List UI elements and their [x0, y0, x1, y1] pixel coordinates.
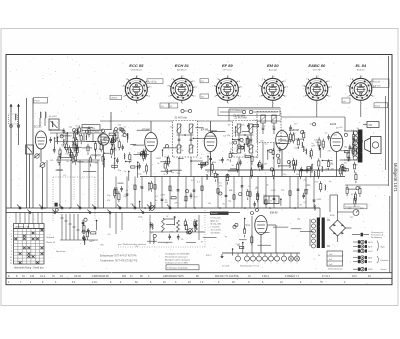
- svg-text:ECH 81: ECH 81: [175, 63, 190, 68]
- svg-text:1398729446 68: 1398729446 68: [92, 275, 109, 278]
- svg-text:Endrohr: Endrohr: [357, 68, 365, 71]
- svg-text:7: 7: [291, 263, 292, 265]
- svg-text:7: 7: [265, 263, 266, 265]
- svg-text:Abschnitt Abzug : Gerät aus: Abschnitt Abzug : Gerät aus: [13, 267, 44, 270]
- svg-text:47 21 4: 47 21 4: [322, 275, 331, 278]
- svg-text:6 82 4: 6 82 4: [262, 275, 269, 278]
- svg-text:AnTr: AnTr: [368, 246, 373, 249]
- svg-text:2,2M: 2,2M: [304, 190, 309, 192]
- svg-text:2,2M: 2,2M: [72, 138, 77, 140]
- svg-text:18 6: 18 6: [352, 275, 357, 278]
- svg-text:g: g: [193, 81, 194, 83]
- svg-text:HµLr: HµLr: [381, 245, 386, 248]
- svg-text:2M: 2M: [255, 157, 258, 159]
- svg-text:Multigerät 1671: Multigerät 1671: [393, 163, 398, 193]
- svg-text:5µF 25V: 5µF 25V: [373, 85, 381, 87]
- svg-text:ECC 85: ECC 85: [129, 63, 144, 68]
- svg-text:C6 C8: C6 C8: [74, 275, 81, 278]
- svg-text:Tonabnehmer 7677-476 ST 562: Tonabnehmer 7677-476 ST 5627 PZ: [100, 260, 138, 263]
- svg-text:EL 84: EL 84: [355, 63, 366, 68]
- svg-text:s: s: [346, 86, 347, 88]
- svg-text:7: 7: [11, 248, 12, 250]
- svg-text:47k: 47k: [219, 186, 222, 188]
- svg-text:2k: 2k: [166, 216, 168, 218]
- svg-text:k: k: [331, 87, 332, 89]
- svg-text:AStr: AStr: [368, 261, 372, 264]
- svg-text:4: 4: [11, 239, 12, 241]
- svg-text:2: 2: [11, 233, 12, 235]
- svg-text:aG: aG: [343, 101, 346, 103]
- svg-text:2M: 2M: [226, 159, 229, 161]
- svg-text:8: 8: [11, 251, 12, 253]
- svg-text:12: 12: [10, 263, 12, 265]
- svg-text:EM 80: EM 80: [267, 63, 279, 68]
- svg-text:3: 3: [11, 236, 12, 238]
- svg-text:ECC85: ECC85: [34, 127, 42, 129]
- svg-text:%: %: [270, 201, 272, 203]
- svg-text:EF 89: EF 89: [222, 63, 233, 68]
- svg-text:0,5M: 0,5M: [271, 190, 276, 192]
- svg-text:2,2M: 2,2M: [236, 244, 241, 246]
- svg-text:6,3 V Skalenl.: 6,3 V Skalenl.: [230, 110, 243, 112]
- svg-text:47k: 47k: [115, 140, 118, 142]
- svg-text:Drehkondensator: Drehkondensator: [328, 268, 343, 271]
- svg-text:2k: 2k: [180, 147, 182, 149]
- svg-text:gez. Wellenschalter gedrückt: gez. Wellenschalter gedrückt: [118, 243, 146, 246]
- svg-text:1n: 1n: [155, 200, 157, 202]
- svg-text:MGZ: MGZ: [368, 269, 373, 271]
- svg-text:Dem NF: Dem NF: [313, 69, 322, 71]
- svg-text:100k: 100k: [212, 162, 216, 164]
- svg-text:2k: 2k: [255, 151, 257, 153]
- svg-text:5: 5: [11, 242, 12, 244]
- svg-text:Sp 1018: Sp 1018: [49, 116, 57, 118]
- svg-text:EL84: EL84: [330, 122, 337, 126]
- svg-text:2,2M: 2,2M: [160, 195, 165, 197]
- svg-text:100k: 100k: [95, 131, 99, 133]
- svg-text:EABC 80: EABC 80: [308, 63, 326, 68]
- svg-text:491 2: 491 2: [206, 255, 212, 257]
- svg-text:1: 1: [11, 230, 12, 232]
- svg-text:12k: 12k: [65, 153, 68, 155]
- svg-text:1M: 1M: [208, 203, 211, 205]
- svg-text:12k: 12k: [263, 195, 266, 197]
- svg-text:Kristaller: Kristaller: [381, 259, 389, 262]
- svg-text:C1-4: C1-4: [40, 275, 46, 278]
- svg-text:2M: 2M: [207, 172, 210, 174]
- svg-text:k: k: [242, 87, 243, 89]
- svg-text:ECH81: ECH81: [142, 128, 151, 132]
- svg-text:Spannungswähler: Spannungswähler: [345, 206, 361, 209]
- svg-text:Die Angaben mit UKW/TA/T: Die Angaben mit UKW/TA/T: [165, 253, 190, 256]
- svg-text:Fernbedieng: Fernbedieng: [371, 236, 382, 239]
- svg-text:ZF Verst: ZF Verst: [223, 68, 232, 71]
- svg-text:1n: 1n: [91, 133, 93, 135]
- svg-text:Farbwagen mitgeliefert: Farbwagen mitgeliefert: [168, 267, 189, 270]
- svg-text:s: s: [121, 86, 122, 88]
- svg-text:Einfachsuper 7677-474 ST 4: Einfachsuper 7677-474 ST 4577 PA: [100, 255, 137, 258]
- svg-text:Z3 467 kHz: Z3 467 kHz: [233, 115, 246, 118]
- svg-text:2k: 2k: [242, 124, 244, 126]
- svg-text:1M: 1M: [254, 169, 257, 171]
- svg-text:2 10: 2 10: [92, 281, 97, 284]
- svg-text:L 150-300: L 150-300: [211, 227, 221, 229]
- svg-text:Klang: Klang: [375, 106, 380, 108]
- svg-text:1M: 1M: [156, 158, 159, 160]
- svg-text:7: 7: [247, 263, 248, 265]
- svg-text:11: 11: [10, 260, 12, 262]
- svg-text:7: 7: [284, 263, 285, 265]
- svg-text:47k: 47k: [328, 151, 331, 153]
- svg-text:2k: 2k: [166, 243, 168, 245]
- svg-text:1n: 1n: [232, 165, 234, 167]
- svg-text:Gramf: Gramf: [381, 268, 387, 271]
- svg-text:7: 7: [271, 263, 272, 265]
- svg-text:47k: 47k: [50, 160, 53, 162]
- svg-text:Anzeige: Anzeige: [269, 68, 278, 71]
- svg-text:s: s: [258, 86, 259, 88]
- svg-text:g: g: [284, 81, 285, 83]
- svg-text:100k: 100k: [138, 216, 142, 218]
- svg-text:g: g: [328, 81, 329, 83]
- svg-text:Sperrkreis: Sperrkreis: [56, 250, 65, 253]
- svg-text:s: s: [212, 86, 213, 88]
- svg-text:1n: 1n: [248, 186, 250, 188]
- svg-text:k: k: [151, 87, 152, 89]
- svg-text:100k: 100k: [248, 141, 252, 143]
- svg-text:2,2M: 2,2M: [229, 143, 234, 145]
- svg-text:Ton 4,5 kHz: Ton 4,5 kHz: [211, 230, 222, 232]
- svg-text:Ratio-El: Ratio-El: [373, 80, 381, 83]
- svg-text:12k: 12k: [336, 132, 339, 134]
- svg-text:10: 10: [10, 257, 12, 259]
- svg-text:7: 7: [297, 263, 298, 265]
- svg-text:Bereich: Bereich: [211, 213, 218, 215]
- svg-text:2k: 2k: [126, 190, 128, 192]
- svg-text:2x 0,1A: 2x 0,1A: [222, 265, 229, 268]
- svg-text:144: 144: [30, 275, 35, 278]
- svg-text:9: 9: [11, 254, 12, 256]
- svg-text:2k: 2k: [163, 174, 165, 176]
- svg-text:Phono 16: Phono 16: [46, 242, 56, 244]
- svg-text:UKW Misch: UKW Misch: [131, 69, 143, 71]
- svg-text:8 369422 7 3: 8 369422 7 3: [285, 275, 300, 278]
- svg-text:7: 7: [277, 263, 278, 265]
- svg-text:47k: 47k: [174, 202, 177, 204]
- svg-text:Z1 467 kHz: Z1 467 kHz: [175, 116, 188, 119]
- svg-text:7: 7: [259, 263, 260, 265]
- svg-text:904 526 774 104 870k: 904 526 774 104 870k: [215, 275, 240, 278]
- svg-text:alle Wellen: alle Wellen: [211, 233, 221, 235]
- svg-text:12k: 12k: [344, 163, 347, 165]
- svg-text:0,5M: 0,5M: [316, 199, 321, 201]
- svg-text:k: k: [287, 87, 288, 89]
- svg-text:U 87,5-100: U 87,5-100: [211, 218, 222, 220]
- svg-text:2M: 2M: [264, 163, 267, 165]
- svg-text:7: 7: [238, 263, 239, 265]
- svg-text:1M: 1M: [228, 125, 231, 127]
- svg-text:1n: 1n: [124, 171, 126, 173]
- svg-text:Skalenlampen 7V 0,3: Skalenlampen 7V 0,3: [240, 266, 260, 268]
- svg-text:ZwO: ZwO: [368, 251, 373, 253]
- svg-text:AM Misch: AM Misch: [177, 68, 187, 71]
- svg-text:47k: 47k: [229, 190, 232, 192]
- svg-text:EM 80: EM 80: [270, 211, 278, 215]
- svg-text:Tonband: Tonband: [46, 237, 55, 239]
- svg-text:Ferrit: Ferrit: [35, 100, 40, 103]
- svg-text:7: 7: [253, 263, 254, 265]
- svg-text:1n: 1n: [124, 133, 126, 135]
- svg-text:24837094237 5070: 24837094237 5070: [163, 275, 184, 278]
- svg-text:2k: 2k: [267, 184, 269, 186]
- svg-text:UKW K M L TA: UKW K M L TA: [15, 226, 29, 229]
- svg-text:g: g: [239, 81, 240, 83]
- svg-text:s: s: [167, 86, 168, 88]
- svg-text:k: k: [196, 87, 197, 89]
- svg-text:2k: 2k: [136, 246, 138, 248]
- svg-text:503: 503: [122, 275, 127, 278]
- svg-text:s: s: [302, 86, 303, 88]
- svg-text:Stellungen an der 10 MHz: Stellungen an der 10 MHz: [165, 262, 188, 265]
- svg-text:6: 6: [11, 245, 12, 247]
